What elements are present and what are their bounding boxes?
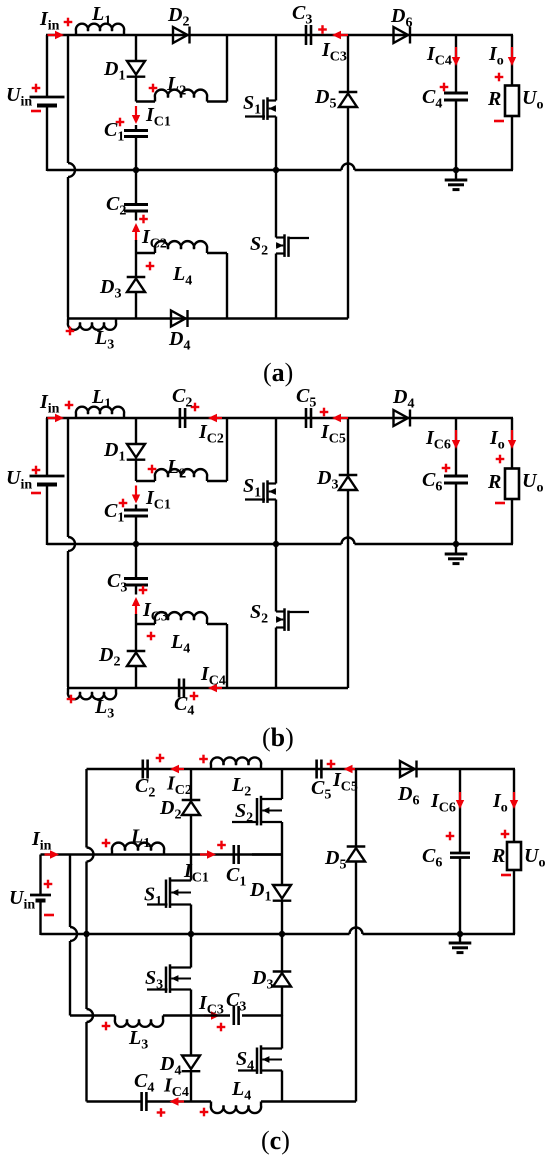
- svg-text:R: R: [487, 88, 501, 110]
- svg-text:R: R: [487, 471, 501, 493]
- svg-text:(b): (b): [262, 723, 294, 752]
- svg-text:(a): (a): [263, 358, 293, 387]
- svg-text:(c): (c): [261, 1126, 290, 1155]
- svg-text:R: R: [491, 845, 505, 867]
